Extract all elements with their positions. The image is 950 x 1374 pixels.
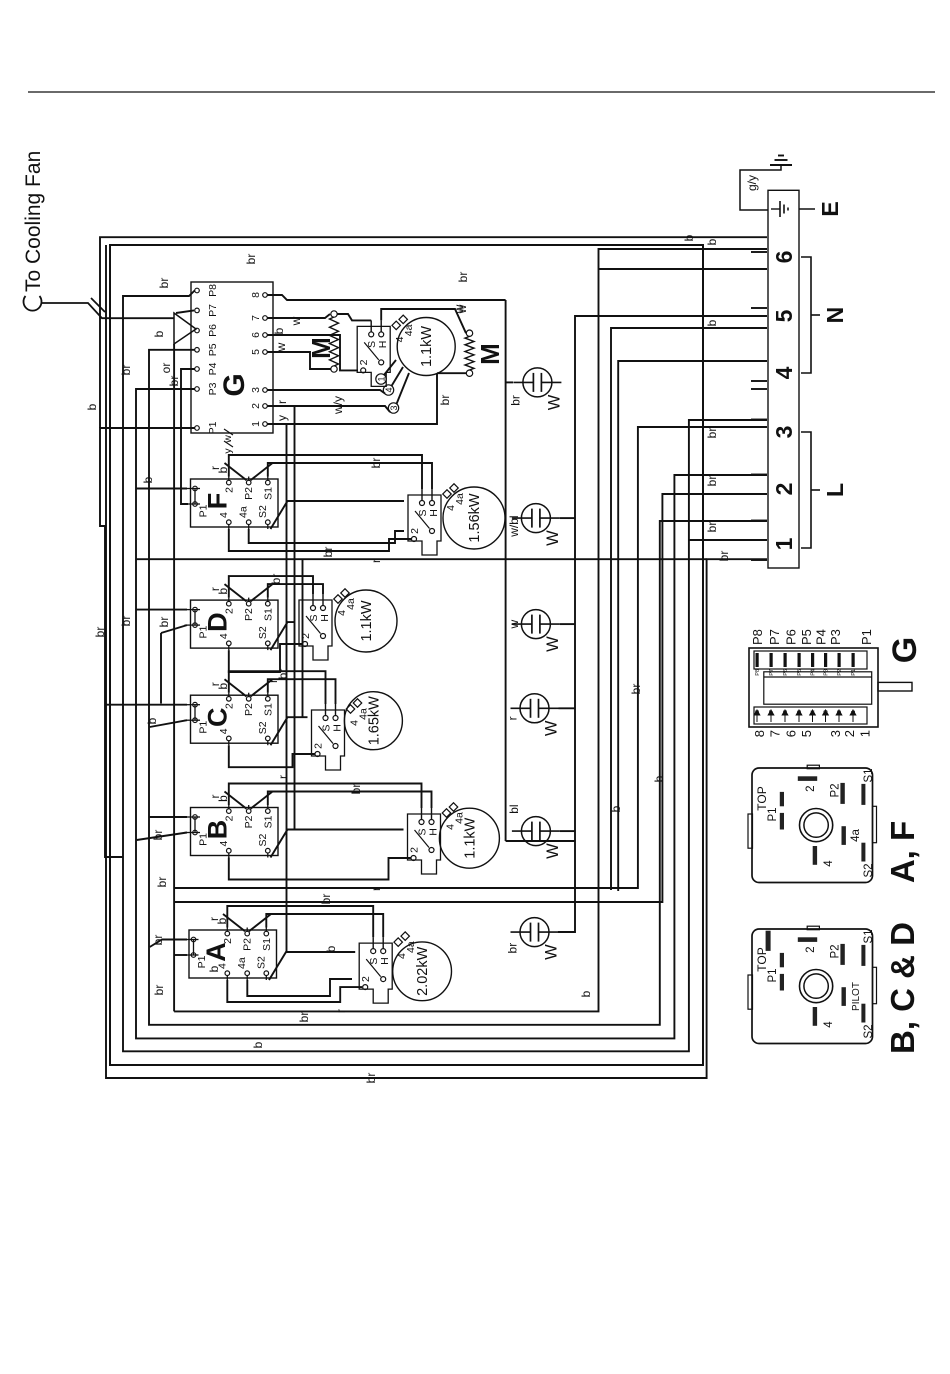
svg-text:S2: S2: [863, 1024, 875, 1038]
wire stub at terminal strip x=949.5: [751, 419, 767, 421]
wire trunk t2: [174, 494, 767, 902]
wire C lamp down: [559, 707, 576, 709]
svg-text:S1: S1: [262, 487, 274, 500]
wire B S1 to regulator H: [268, 792, 432, 809]
pin 2 of F-row: [412, 537, 417, 542]
pin P5 of G: [195, 348, 200, 353]
wire F 4a: [249, 529, 404, 543]
wire F lamp down: [560, 517, 575, 519]
wire stub at terminal strip x=809: [751, 559, 767, 561]
svg-text:3: 3: [824, 710, 830, 713]
svg-text:W: W: [545, 394, 563, 410]
pivot pin 4 of C-row: [333, 744, 338, 749]
wire D S2 diagonal: [271, 622, 296, 650]
heating element 2.02kW (A-row): [393, 942, 452, 1001]
legend switch A-F: [752, 768, 873, 883]
legend G slot 3: [823, 710, 829, 722]
legend A-F pin 4: [813, 846, 817, 865]
svg-text:w/y: w/y: [331, 396, 345, 415]
svg-text:H: H: [379, 957, 391, 965]
wire regulator H to M2: [381, 309, 466, 333]
wire G pin5 to M1: [267, 352, 331, 369]
M1 winding: [330, 317, 339, 366]
svg-text:P4: P4: [207, 362, 219, 375]
bracket L: [801, 432, 811, 548]
legend G slot 8: [754, 710, 760, 722]
svg-text:w: w: [289, 316, 303, 326]
svg-text:H: H: [332, 724, 344, 732]
wire trunk t5: [611, 328, 767, 890]
wire lamp bus: [558, 316, 767, 932]
legend B-C-D pin P2: [840, 944, 844, 965]
legend G slot P2: [838, 653, 841, 667]
pins 4/4a of B-row: [442, 809, 450, 817]
pin S2 of F: [266, 520, 271, 525]
pin 2 of C: [227, 697, 232, 702]
svg-text:br: br: [717, 551, 731, 562]
svg-text:1: 1: [250, 421, 262, 427]
legend switch B-C-D: [752, 929, 873, 1044]
To Cooling Fan terminal: [23, 296, 41, 311]
legend connector G: [749, 648, 878, 727]
pin H of B-row: [429, 820, 434, 825]
svg-text:2: 2: [250, 403, 262, 409]
terminal E earth mark: [771, 208, 780, 210]
svg-text:W: W: [544, 636, 562, 652]
legend A-F pin P2: [840, 783, 844, 804]
pivot pin 4 of B-row: [429, 848, 434, 853]
pin P1 of G: [195, 426, 200, 431]
legend G slot 1: [850, 710, 856, 722]
wire D S1 to regulator H: [268, 584, 323, 598]
wire stub at terminal strip x=894.5: [751, 474, 767, 476]
svg-text:1: 1: [771, 537, 797, 550]
svg-text:8: 8: [752, 730, 767, 737]
svg-text:P1: P1: [851, 669, 857, 676]
svg-text:2: 2: [313, 743, 325, 749]
svg-text:2: 2: [223, 608, 235, 614]
bracket N: [801, 257, 811, 373]
svg-text:8: 8: [250, 292, 262, 298]
svg-text:b: b: [216, 587, 230, 594]
svg-text:w: w: [222, 435, 234, 444]
svg-text:4: 4: [823, 860, 835, 867]
svg-text:5: 5: [797, 710, 803, 713]
svg-text:y: y: [275, 415, 289, 421]
wire D P2 diagonals: [225, 584, 247, 601]
pin S1 of C: [266, 697, 271, 702]
legend A-F pin 4a: [842, 826, 846, 845]
pin 4 of F: [227, 520, 232, 525]
svg-text:P8: P8: [207, 284, 219, 297]
pin 6 of G: [263, 333, 268, 338]
legend B-C-D centre rotor: [800, 970, 833, 1003]
svg-text:r: r: [334, 1009, 348, 1013]
legend G slot P6: [784, 653, 787, 667]
wire A 2-pin to regulator S: [227, 906, 373, 937]
svg-text:4: 4: [384, 387, 394, 392]
svg-text:4a: 4a: [238, 506, 250, 518]
legend B-C-D tabs: [748, 975, 753, 1009]
svg-text:P7: P7: [767, 629, 782, 645]
pin 4 of B: [227, 848, 232, 853]
wire long vertical to trunk: [136, 558, 707, 560]
wire cooling-fan lead with break: [41, 303, 174, 318]
svg-text:To Cooling Fan: To Cooling Fan: [22, 151, 45, 292]
pin P2 of A: [245, 931, 250, 936]
svg-text:1.1kW: 1.1kW: [462, 817, 478, 858]
wire D lamp down: [560, 623, 575, 625]
svg-text:b: b: [579, 990, 593, 997]
legend A-F tabs: [748, 814, 753, 848]
svg-text:7: 7: [768, 730, 783, 737]
motor M1 (cooling fan): [331, 366, 337, 372]
pin S1 of D: [266, 601, 271, 606]
svg-text:br: br: [321, 547, 335, 558]
energy regulator switch F-row: [408, 495, 441, 555]
svg-text:H: H: [377, 341, 389, 349]
svg-text:P2: P2: [242, 938, 254, 951]
svg-text:b: b: [152, 330, 166, 337]
pin S of D-row: [311, 606, 316, 611]
svg-text:P1: P1: [767, 807, 779, 821]
svg-text:w: w: [507, 619, 521, 629]
svg-text:br: br: [456, 272, 470, 283]
junction triangle at G P5/P6: [174, 313, 196, 344]
legend A-F centre rotor: [800, 808, 833, 841]
legend B-C-D pin 4: [813, 1007, 817, 1026]
svg-text:P1: P1: [859, 629, 874, 645]
pin H of F-row: [430, 501, 435, 506]
svg-text:br: br: [155, 877, 169, 888]
legend G slot P8: [756, 653, 759, 667]
svg-text:4a: 4a: [236, 957, 248, 969]
svg-text:6: 6: [784, 730, 799, 737]
svg-text:TOP: TOP: [755, 947, 769, 971]
svg-text:P4: P4: [814, 629, 829, 645]
wire branch drop terminal 1b: [689, 539, 767, 541]
svg-text:b: b: [141, 476, 155, 483]
svg-text:S1: S1: [262, 815, 274, 828]
svg-text:TOP: TOP: [755, 786, 769, 810]
svg-text:br: br: [244, 254, 258, 265]
svg-text:P2: P2: [243, 815, 255, 828]
pins 4/4a of F-row: [443, 490, 451, 498]
svg-text:H: H: [428, 509, 440, 517]
wire D 2-pin to regulator S: [229, 576, 313, 598]
svg-text:3: 3: [250, 387, 262, 393]
legend G shaft: [878, 682, 912, 691]
svg-text:b: b: [216, 466, 230, 473]
svg-text:G: G: [886, 637, 924, 663]
svg-text:S2: S2: [257, 833, 269, 846]
legend G slot P7: [770, 653, 773, 667]
energy regulator switch B-row: [408, 814, 441, 874]
pin H of C-row: [333, 716, 338, 721]
svg-text:G: G: [218, 373, 251, 396]
svg-text:P5: P5: [207, 343, 219, 356]
wire F P1 riser: [136, 488, 187, 490]
svg-text:S2: S2: [257, 721, 269, 734]
svg-text:P3: P3: [824, 669, 830, 676]
earth pigtail g/y: [740, 165, 781, 210]
svg-text:7: 7: [250, 315, 262, 321]
pin 3 of G: [263, 388, 268, 393]
svg-text:B, C & D: B, C & D: [884, 922, 921, 1054]
wire B 2-pin to regulator S: [229, 784, 422, 809]
svg-text:S2: S2: [863, 863, 875, 877]
energy regulator switch G-row: [357, 326, 390, 386]
pin P2 of F: [246, 480, 251, 485]
svg-text:r: r: [276, 775, 290, 779]
wire neutral trunk: [174, 249, 767, 1011]
svg-text:1: 1: [851, 710, 857, 713]
svg-text:1.56kW: 1.56kW: [467, 493, 483, 542]
wire bus triangle: [173, 344, 175, 1011]
svg-text:W: W: [543, 944, 561, 960]
svg-text:b: b: [216, 683, 230, 690]
svg-text:br: br: [157, 278, 171, 289]
wire E link: [799, 208, 815, 210]
svg-text:y: y: [222, 448, 234, 454]
wire A lamp down: [559, 931, 576, 933]
svg-text:b: b: [705, 319, 719, 326]
svg-text:r: r: [369, 887, 383, 891]
svg-text:4: 4: [771, 366, 797, 379]
svg-text:b: b: [216, 795, 230, 802]
svg-text:S1: S1: [262, 703, 274, 716]
svg-text:L: L: [822, 483, 848, 497]
legend B-C-D pin S1: [861, 945, 865, 966]
svg-text:br: br: [276, 669, 290, 680]
svg-text:P2: P2: [243, 703, 255, 716]
legend B-C-D top pin: [766, 931, 771, 951]
pin S of A-row: [371, 949, 376, 954]
wire fan terminal fan-out: [384, 360, 396, 375]
heating element 1.1kW (G-row): [397, 318, 455, 376]
svg-text:2: 2: [222, 938, 234, 944]
svg-text:P7: P7: [207, 304, 219, 317]
pin P4 of G: [195, 367, 200, 372]
wire A S2 diagonal: [269, 952, 355, 980]
svg-text:br: br: [297, 1012, 311, 1023]
svg-text:4: 4: [218, 633, 230, 639]
svg-text:br: br: [151, 935, 165, 946]
pin S1 of B: [266, 809, 271, 814]
svg-text:2: 2: [223, 703, 235, 709]
svg-text:C: C: [203, 707, 233, 727]
pin 2 of B-row: [411, 856, 416, 861]
pin 2 of B: [227, 809, 232, 814]
svg-text:br: br: [705, 476, 719, 487]
wire A P1 risers: [174, 954, 187, 956]
pin S2 of C: [266, 736, 271, 741]
pin 2 of G-row: [361, 368, 366, 373]
svg-text:br: br: [151, 830, 165, 841]
pin P8 of G: [195, 288, 200, 293]
svg-text:P5: P5: [797, 669, 803, 676]
heating element 1.1kW (B-row): [439, 808, 499, 868]
indicator lamp G: [523, 368, 552, 397]
legend G pin strip right: [754, 651, 867, 669]
wire series bus 3: [302, 559, 304, 717]
svg-text:3: 3: [389, 405, 399, 410]
pin 4 of D: [227, 641, 232, 646]
svg-text:b: b: [652, 775, 666, 782]
pin H of D-row: [321, 606, 326, 611]
svg-text:W: W: [543, 720, 561, 736]
wire A P2 diagonals: [223, 914, 245, 931]
svg-text:5: 5: [799, 730, 814, 737]
legend G slot 7: [768, 710, 774, 722]
pin 2 of C-row: [315, 752, 320, 757]
wire C P1 risers: [150, 720, 187, 727]
svg-text:7: 7: [769, 710, 775, 713]
wire M1 to regulator S: [337, 314, 371, 320]
svg-text:bl: bl: [507, 804, 521, 813]
header rule: [28, 91, 935, 93]
svg-text:2: 2: [409, 528, 421, 534]
svg-text:2: 2: [358, 359, 370, 365]
selector switch G: [191, 282, 273, 433]
wire C 4-pin to regulator 2: [229, 745, 315, 767]
supply terminal strip: [768, 190, 799, 568]
svg-text:6: 6: [783, 710, 789, 713]
svg-text:2: 2: [771, 483, 797, 496]
legend A-F pin S2: [861, 843, 865, 862]
switch block A: [183, 930, 277, 978]
svg-text:H: H: [319, 614, 331, 622]
legend G pin strip left: [754, 707, 867, 724]
wire G pin8 to lamp: [267, 295, 505, 300]
legend G slot P4: [811, 653, 814, 667]
pin P2 of D: [246, 601, 251, 606]
pin P3 of G: [195, 387, 200, 392]
pins 4/4a of A-row: [394, 938, 402, 946]
pins 4/4a of D-row: [334, 595, 342, 603]
svg-text:4a: 4a: [850, 829, 862, 842]
wire B lamp down: [560, 830, 575, 832]
svg-text:P2: P2: [837, 669, 843, 676]
svg-text:2: 2: [805, 947, 817, 953]
wire C 2-pin to regulator S: [229, 671, 326, 704]
svg-text:2: 2: [409, 847, 421, 853]
motor M2: [466, 370, 472, 376]
svg-text:W: W: [544, 843, 562, 859]
heating element 1.65kW (C-row): [344, 692, 402, 750]
switch block B: [185, 808, 279, 856]
svg-text:S1: S1: [261, 938, 273, 951]
svg-text:w/bl: w/bl: [507, 515, 521, 537]
pin 4a of A: [245, 971, 250, 976]
legend G slot P1: [852, 653, 855, 667]
pin 8 of G: [263, 293, 268, 298]
pin 1 of G: [263, 422, 268, 427]
switch block C: [185, 695, 279, 743]
pivot pin 4 of D-row: [321, 634, 326, 639]
svg-text:br: br: [269, 574, 283, 585]
legend B-C-D pin P1: [780, 974, 784, 991]
svg-text:6: 6: [250, 332, 262, 338]
wire bus F.P1 to G.P4: [181, 369, 195, 504]
legend B-C-D pin PILOT: [842, 987, 846, 1006]
svg-text:P2: P2: [830, 783, 842, 797]
svg-text:br: br: [508, 395, 522, 406]
M2 winding: [465, 336, 474, 370]
svg-text:1: 1: [858, 730, 873, 737]
svg-text:r: r: [369, 559, 383, 563]
svg-text:b: b: [215, 917, 229, 924]
svg-text:4a: 4a: [345, 598, 357, 610]
pin 2 of G: [263, 404, 268, 409]
switch block D: [185, 600, 279, 648]
wire stub at terminal strip x=1061: [751, 307, 767, 309]
svg-text:4: 4: [823, 1021, 835, 1028]
svg-text:b: b: [324, 945, 338, 952]
wire C S2 diagonal: [271, 717, 308, 745]
pin 2 of D: [227, 601, 232, 606]
svg-text:B: B: [203, 820, 233, 840]
legend G body: [764, 672, 872, 704]
svg-text:S2: S2: [257, 626, 269, 639]
svg-text:2: 2: [360, 976, 372, 982]
svg-text:3: 3: [828, 730, 843, 737]
svg-text:P6: P6: [783, 669, 789, 676]
main diagram border: [110, 245, 703, 1065]
svg-text:5: 5: [250, 349, 262, 355]
pin S2 of B: [266, 848, 271, 853]
wire series bus 2: [294, 406, 296, 830]
pin S of C-row: [323, 716, 328, 721]
wire C S1 to regulator H: [268, 679, 336, 704]
pin S1 of F: [266, 480, 271, 485]
wire B P2 diagonals: [225, 792, 247, 809]
svg-text:1.65kW: 1.65kW: [366, 696, 382, 745]
wire stub at terminal strip x=988: [751, 380, 767, 382]
svg-text:b: b: [272, 327, 286, 334]
svg-text:br: br: [369, 458, 383, 469]
svg-text:F: F: [203, 493, 233, 510]
svg-text:br: br: [438, 395, 452, 406]
pin S of B-row: [419, 820, 424, 825]
wire G pin1 down: [267, 373, 437, 424]
pin 4a of F: [246, 520, 251, 525]
svg-text:4: 4: [218, 841, 230, 847]
pivot pin 4 of A-row: [381, 977, 386, 982]
svg-text:S1: S1: [863, 929, 875, 943]
wire B 4-pin to regulator 2: [229, 858, 411, 880]
wire F S2 diagonal: [271, 501, 405, 529]
svg-text:br: br: [705, 428, 719, 439]
svg-text:w: w: [452, 304, 466, 314]
pin P2 of C: [246, 697, 251, 702]
wire M2 left: [437, 372, 466, 374]
indicator lamp B: [521, 817, 550, 846]
svg-text:2.02kW: 2.02kW: [415, 946, 431, 995]
pin S1 of A: [264, 931, 269, 936]
svg-text:br: br: [93, 627, 107, 638]
svg-text:4: 4: [811, 710, 817, 713]
energy regulator switch D-row: [299, 600, 332, 660]
pin 2 of D-row: [303, 642, 308, 647]
svg-text:PILOT: PILOT: [851, 982, 862, 1011]
svg-text:N: N: [822, 307, 848, 324]
pin H of A-row: [381, 949, 386, 954]
pin P7 of G: [195, 308, 200, 313]
svg-text:br: br: [119, 365, 133, 376]
svg-text:5: 5: [771, 309, 797, 322]
wire G pin2 down: [267, 406, 390, 412]
